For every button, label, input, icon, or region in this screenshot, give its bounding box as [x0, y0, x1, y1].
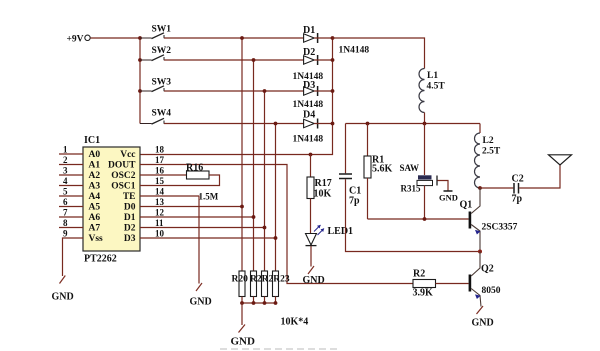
- svg-text:PT2262: PT2262: [84, 254, 117, 265]
- node L1/SAW: [423, 122, 427, 126]
- switch SW3: [140, 78, 171, 92]
- svg-text:Q1: Q1: [460, 200, 473, 211]
- faint cropped caption at bottom: [220, 348, 340, 350]
- node D3: [274, 236, 278, 240]
- node D3 cathode: [331, 89, 335, 93]
- svg-text:8: 8: [63, 218, 68, 228]
- pin numbers right: [155, 145, 165, 239]
- node tap4 top: [274, 122, 278, 126]
- ground GND SAW: [437, 176, 458, 203]
- svg-text:R315: R315: [401, 184, 421, 194]
- svg-text:OSC1: OSC1: [111, 182, 136, 192]
- svg-text:+9V: +9V: [67, 35, 84, 45]
- svg-text:A2: A2: [89, 171, 101, 181]
- svg-text:11: 11: [155, 218, 164, 228]
- svg-text:3.9K: 3.9K: [413, 288, 434, 299]
- node rail R20: [240, 301, 244, 305]
- switch SW2: [140, 46, 171, 61]
- left pin stubs pins 1-8: [59, 154, 83, 228]
- resistor R20: [232, 271, 249, 297]
- svg-text:D1: D1: [124, 213, 136, 223]
- svg-text:A0: A0: [89, 150, 101, 160]
- svg-text:7p: 7p: [512, 194, 523, 205]
- svg-text:Vcc: Vcc: [120, 150, 135, 160]
- svg-text:A7: A7: [89, 224, 101, 234]
- svg-text:GND: GND: [231, 336, 256, 348]
- wire C1 bottom to emitter line: [346, 179, 481, 251]
- wire diode cathode rail: [140, 38, 333, 155]
- ground GND TE: [190, 283, 212, 308]
- node SAW to base: [423, 217, 427, 221]
- svg-text:13: 13: [155, 197, 165, 207]
- resistor R17 10K: [307, 177, 332, 200]
- svg-text:3: 3: [63, 166, 68, 176]
- ground GND LED: [303, 266, 325, 286]
- wire top rail to L1: [333, 38, 425, 69]
- svg-text:R2: R2: [413, 269, 425, 280]
- svg-text:6: 6: [63, 197, 68, 207]
- svg-text:D3: D3: [124, 234, 136, 244]
- svg-text:A3: A3: [89, 182, 101, 192]
- wire pulldown rail: [242, 297, 276, 304]
- node SW2 feed: [138, 58, 142, 62]
- svg-text:GND: GND: [303, 275, 325, 286]
- resistor R2 3.9K: [413, 269, 436, 299]
- svg-text:GND: GND: [52, 292, 74, 303]
- capacitor C2 7p: [512, 174, 524, 205]
- wire Q1 base line: [368, 218, 469, 220]
- svg-text:10: 10: [155, 229, 165, 239]
- node R1 top: [366, 122, 370, 126]
- svg-text:7p: 7p: [349, 196, 360, 207]
- svg-text:2SC3357: 2SC3357: [482, 223, 518, 233]
- svg-text:IC1: IC1: [84, 135, 100, 146]
- svg-text:SAW: SAW: [400, 163, 420, 173]
- node tap2 top: [252, 58, 256, 62]
- node D2: [263, 226, 267, 230]
- resistor R23: [250, 271, 290, 297]
- ground GND rail: [231, 325, 256, 348]
- svg-text:1N4148: 1N4148: [339, 46, 370, 56]
- svg-text:D2: D2: [124, 224, 136, 234]
- svg-text:17: 17: [155, 155, 165, 165]
- svg-text:A4: A4: [89, 192, 101, 202]
- wire tap SW2/D1: [253, 60, 255, 271]
- svg-text:GND: GND: [190, 297, 212, 308]
- wire pin14 TE to ground: [140, 196, 199, 284]
- wire tap SW4/D3: [275, 124, 277, 272]
- wire +9V to SW column: [90, 37, 140, 39]
- IC pin names right column: [108, 150, 136, 244]
- svg-text:SW1: SW1: [152, 25, 172, 35]
- wire tap SW3/D2: [264, 91, 266, 271]
- IC U1 PT2262: [83, 135, 140, 265]
- svg-text:9: 9: [63, 229, 68, 239]
- diode D2 1N4148: [293, 47, 333, 82]
- node L2 bottom: [478, 186, 482, 190]
- wire rail to ground: [241, 303, 243, 325]
- svg-text:GND: GND: [472, 318, 494, 329]
- svg-text:4: 4: [63, 176, 68, 186]
- node rail R23: [274, 301, 278, 305]
- inductor L2 2.5T: [475, 124, 501, 189]
- node tap3 top: [263, 89, 267, 93]
- wire SW2 to D2: [164, 59, 304, 61]
- svg-text:A6: A6: [89, 213, 101, 223]
- wire pin17 DOUT route: [140, 165, 413, 284]
- svg-text:SW3: SW3: [152, 78, 172, 88]
- transistor Q1 2SC3357: [460, 188, 518, 252]
- svg-text:D4: D4: [303, 110, 315, 121]
- pin numbers left: [63, 145, 68, 239]
- node rail R21: [252, 301, 256, 305]
- svg-text:5: 5: [63, 187, 68, 197]
- svg-text:C2: C2: [512, 174, 524, 185]
- svg-text:L1: L1: [427, 71, 438, 81]
- svg-text:TE: TE: [123, 192, 136, 202]
- node D1 cathode: [331, 36, 335, 40]
- wire LED1 to ground: [310, 246, 312, 267]
- svg-text:A1: A1: [89, 161, 101, 171]
- svg-text:16: 16: [155, 166, 165, 176]
- node D4 cathode: [331, 122, 335, 126]
- node Q1 emitter / Q2 collector: [478, 250, 482, 254]
- switch SW1: [140, 25, 171, 39]
- svg-text:8050: 8050: [482, 286, 501, 296]
- resistor R22: [262, 271, 268, 297]
- svg-text:SW4: SW4: [152, 109, 172, 119]
- svg-text:1.5M: 1.5M: [199, 192, 219, 202]
- svg-text:R20: R20: [232, 275, 249, 285]
- SAW resonator R315: [400, 124, 433, 220]
- svg-text:2.5T: 2.5T: [482, 147, 501, 157]
- wire C2 to antenna: [519, 165, 560, 188]
- wire R2 to Q2 base: [436, 283, 469, 285]
- svg-text:Vss: Vss: [89, 234, 104, 244]
- node D0: [240, 205, 244, 209]
- antenna: [549, 155, 572, 165]
- svg-text:1N4148: 1N4148: [293, 100, 324, 110]
- svg-text:5.6K: 5.6K: [372, 164, 393, 175]
- svg-text:A5: A5: [89, 203, 101, 213]
- wire +9V vertical bus: [139, 38, 141, 124]
- wire pin13 D0: [140, 206, 242, 208]
- svg-text:GND: GND: [439, 193, 458, 203]
- svg-text:D0: D0: [124, 203, 136, 213]
- wire L2 to C2: [480, 187, 513, 189]
- svg-text:14: 14: [155, 187, 165, 197]
- svg-text:12: 12: [155, 208, 165, 218]
- wire SW4 to D4: [164, 123, 304, 125]
- wire Vcc rail node to R17: [309, 153, 313, 157]
- wire SW3 to D3: [164, 90, 304, 92]
- wire pin9 Vss to ground: [63, 238, 84, 276]
- svg-text:OSC2: OSC2: [111, 171, 136, 181]
- transistor Q2 8050: [469, 252, 501, 307]
- svg-text:LED1: LED1: [328, 226, 354, 237]
- LED LED1: [306, 225, 354, 246]
- svg-text:1: 1: [63, 145, 68, 155]
- inductor L1 4.5T: [419, 69, 445, 124]
- node D2 cathode: [331, 58, 335, 62]
- svg-text:4.5T: 4.5T: [427, 82, 446, 92]
- svg-text:18: 18: [155, 145, 165, 155]
- svg-text:10K: 10K: [314, 189, 332, 200]
- wire tap SW1/D0: [241, 38, 243, 271]
- power terminal +9V: [67, 35, 91, 45]
- svg-text:R2R2R23: R2R2R23: [250, 275, 290, 285]
- diode D4 1N4148: [293, 110, 333, 145]
- switch SW4: [140, 109, 171, 125]
- wire pin12 D1: [140, 216, 254, 218]
- node D1: [252, 215, 256, 219]
- node SW1 feed: [138, 36, 142, 40]
- resistor R16 1.5M: [140, 163, 220, 202]
- wire pin10 D3: [140, 237, 276, 239]
- ground GND left: [52, 276, 74, 303]
- svg-text:7: 7: [63, 208, 68, 218]
- IC pin names left column: [89, 150, 104, 244]
- svg-text:10K*4: 10K*4: [281, 317, 309, 328]
- node rail R22: [263, 301, 267, 305]
- resistor R21: [251, 271, 257, 297]
- svg-text:1N4148: 1N4148: [293, 135, 324, 145]
- resistor R1 5.6K: [364, 124, 393, 220]
- diode D1 1N4148: [303, 25, 369, 56]
- node tap1 top: [240, 36, 244, 40]
- oscillator top wire: [346, 123, 481, 125]
- svg-text:15: 15: [155, 176, 165, 186]
- svg-text:L2: L2: [483, 136, 494, 146]
- svg-text:DOUT: DOUT: [108, 161, 136, 171]
- svg-text:Q2: Q2: [481, 264, 494, 275]
- svg-text:SW2: SW2: [152, 46, 172, 56]
- diode D3 1N4148: [293, 80, 333, 110]
- wire R17 to LED1: [310, 199, 312, 234]
- node SW3 feed: [138, 89, 142, 93]
- svg-text:R17: R17: [315, 178, 332, 189]
- wire SW1 to D1: [164, 37, 304, 39]
- capacitor C1 7p: [339, 124, 361, 207]
- svg-text:2: 2: [63, 155, 68, 165]
- wire pin11 D2: [140, 227, 265, 229]
- ground GND Q2: [472, 306, 494, 329]
